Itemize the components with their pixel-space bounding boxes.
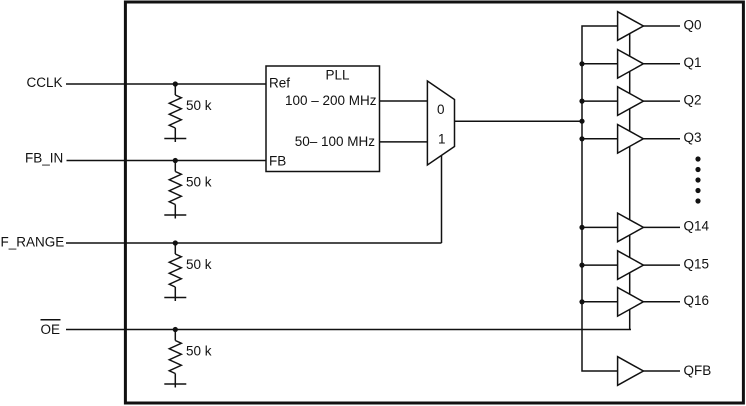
svg-text:Q1: Q1 [684,55,702,70]
junction dot Q16 [579,299,584,304]
mux input label 1 [438,132,446,147]
svg-text:Q16: Q16 [684,293,710,308]
mux U2 [427,81,454,165]
value label R4 [186,344,212,359]
wire Q15 output [643,264,680,266]
wire Q14 output [643,226,680,228]
junction dot Q1 [579,61,584,66]
output enable rail [629,30,631,330]
ground for R4 [164,383,186,385]
node F_RANGE label [1,235,65,250]
svg-text:50 k: 50 k [186,175,212,190]
buffer Q1 [618,50,644,79]
ground for R3 [164,297,186,299]
node Q0 label [684,17,702,32]
ground for R1 [164,138,186,140]
svg-text:Q3: Q3 [684,130,702,145]
svg-text:Q15: Q15 [684,256,710,271]
range label 50-100 MHz [295,134,376,149]
value label R2 [186,175,212,190]
buffer Q14 [618,213,644,242]
node Q14 label [684,219,710,234]
node FB_IN label [25,151,63,166]
wire F_RANGE to mux select [66,242,442,244]
wire branch to Q14 buffer [582,226,618,228]
pin label FB [269,154,286,169]
svg-text:QFB: QFB [684,363,712,378]
junction dot mux output on rail [579,119,584,124]
wire FB_IN to PLL FB [67,160,267,162]
node Q16 label [684,293,710,308]
junction dot Q2 [579,99,584,104]
buffer QFB [618,357,644,386]
node Q2 label [684,92,702,107]
wire mux output to clock rail [455,120,583,122]
svg-text:1: 1 [438,132,446,147]
svg-text:0: 0 [437,102,445,117]
node Q15 label [684,256,710,271]
wire branch to Q1 buffer [582,63,618,65]
ellipsis dots for Q4..Q13 [695,156,700,203]
junction dot Q14 [579,225,584,230]
resistor R4 50k on OE [169,327,181,388]
PLL block U1 [266,66,380,172]
resistor R1 50k on CCLK [169,81,181,142]
junction dot Q3 [579,136,584,141]
wire CCLK to PLL Ref [66,83,266,85]
wire PLL high output to mux input 0 [380,100,428,102]
svg-text:F_RANGE: F_RANGE [1,235,65,250]
wire branch to Q15 buffer [582,264,618,266]
svg-text:FB: FB [269,154,286,169]
ground for R2 [164,214,186,216]
pin label Ref [269,76,290,91]
wire branch to Q3 buffer [582,138,618,140]
block title PLL [326,68,351,83]
node Q1 label [684,55,702,70]
wire OE to output-enable rail [66,329,631,331]
wire Q0 output [643,25,680,27]
node OE label (active low) [41,322,61,337]
range label 100-200 MHz [285,93,377,108]
wire Q3 output [643,138,680,140]
svg-text:100 – 200 MHz: 100 – 200 MHz [285,93,377,108]
resistor R2 50k on FB_IN [169,158,181,219]
buffer Q2 [618,87,644,116]
svg-text:50 k: 50 k [186,98,212,113]
svg-text:Q0: Q0 [684,17,702,32]
resistor R3 50k on F_RANGE [169,240,181,301]
svg-text:Ref: Ref [269,76,290,91]
wire PLL low output to mux input 1 [380,141,428,143]
buffer Q16 [618,288,644,317]
wire Q2 output [643,100,680,102]
wire branch to Q16 buffer [582,301,618,303]
clock distribution rail [582,26,618,371]
node QFB label [684,363,712,378]
wire QFB output [643,370,680,372]
buffer Q3 [618,125,644,154]
wire Q16 output [643,301,680,303]
node Q3 label [684,130,702,145]
svg-text:50 k: 50 k [186,344,212,359]
svg-text:Q2: Q2 [684,92,702,107]
buffer Q15 [618,251,644,280]
OE overline [41,319,61,321]
svg-text:50 k: 50 k [186,257,212,272]
wire branch to Q2 buffer [582,100,618,102]
mux input label 0 [437,102,445,117]
svg-text:50– 100 MHz: 50– 100 MHz [295,134,376,149]
value label R3 [186,257,212,272]
svg-text:OE: OE [41,322,61,337]
svg-text:CCLK: CCLK [27,75,63,90]
junction dot Q15 [579,263,584,268]
wire mux select from F_RANGE [441,156,443,244]
node CCLK label [27,75,63,90]
svg-text:PLL: PLL [326,68,351,83]
wire Q1 output [643,63,680,65]
svg-text:FB_IN: FB_IN [25,151,63,166]
svg-text:Q14: Q14 [684,219,710,234]
value label R1 [186,98,212,113]
buffer Q0 [618,12,644,41]
